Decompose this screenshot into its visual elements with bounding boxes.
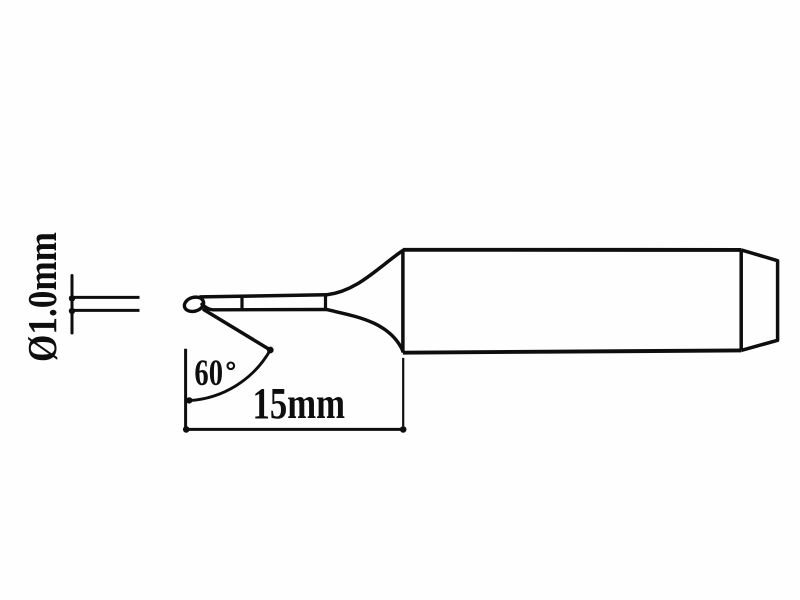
15mm dim dot right: [400, 426, 407, 433]
rod bottom edge: [202, 304, 327, 310]
flare top curve: [327, 251, 403, 295]
svg-text:60: 60: [194, 353, 223, 394]
dimension extension line (vertical, left of tip): [71, 276, 74, 334]
extension line below cylinder (right of 15mm): [402, 358, 404, 426]
cylinder bottom edge: [403, 350, 741, 352]
dimension node dot lower: [69, 308, 75, 314]
dimension leader line top (1.0mm upper): [71, 296, 140, 299]
rod top edge: [201, 295, 327, 297]
angle arc (60 degrees): [189, 350, 270, 401]
bevel vertex dot: [267, 347, 274, 354]
cylinder top edge: [403, 248, 741, 252]
dimension leader line bottom (1.0mm lower): [71, 309, 140, 312]
rod tick mark 2: [324, 295, 327, 310]
15mm dimension line: [186, 428, 404, 431]
end cap outline: [741, 250, 777, 351]
angle extension line (vertical, left): [184, 349, 187, 432]
bevel edge (60 deg face line): [204, 310, 270, 350]
rod tick mark 1: [240, 295, 243, 310]
flare bottom curve: [327, 310, 403, 351]
tip face ellipse: [183, 295, 206, 314]
arc end dot: [186, 397, 192, 403]
svg-text:Ø1.0mm: Ø1.0mm: [19, 232, 65, 362]
degree symbol: [228, 363, 235, 370]
dimension node dot upper: [69, 295, 75, 301]
cylinder left edge: [401, 251, 405, 353]
cylinder end vertical line: [739, 250, 743, 351]
svg-text:15mm: 15mm: [253, 379, 346, 428]
15mm dim dot left: [183, 426, 190, 433]
